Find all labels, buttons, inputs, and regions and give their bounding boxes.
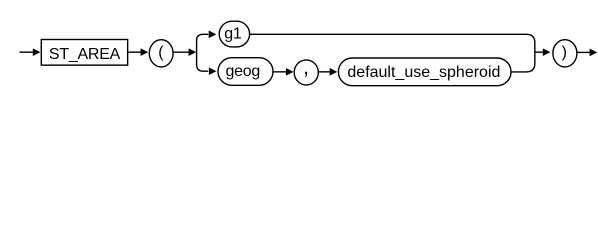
- arrowhead into geog: [209, 67, 217, 75]
- arrowhead into default_use_spheroid: [330, 68, 338, 76]
- arrowhead into ST_AREA: [33, 48, 41, 56]
- wire exit line: [577, 51, 591, 53]
- arrowhead into g1: [209, 31, 217, 39]
- arrowhead at branch point: [189, 48, 197, 56]
- wire geog to comma: [273, 71, 286, 73]
- wire entry line: [20, 51, 34, 53]
- arrowhead into rparen: [543, 48, 551, 56]
- wire top path g1 to merge: [249, 34, 534, 63]
- wire branch to g1 (top curve): [197, 34, 209, 40]
- wire bottom path to merge: [511, 63, 535, 72]
- node geog oval: [218, 58, 273, 86]
- wire lparen to branch: [173, 51, 190, 53]
- svg-text:,: ,: [303, 56, 309, 79]
- svg-text:default_use_spheroid: default_use_spheroid: [347, 64, 500, 81]
- box ST_AREA: [41, 40, 127, 66]
- wire merge to rparen: [535, 51, 543, 53]
- arrowhead into lparen: [141, 48, 149, 56]
- svg-text:(: (: [158, 44, 164, 61]
- wire box to lparen: [128, 51, 141, 53]
- terminal lparen circle: [149, 40, 173, 67]
- terminal comma circle: [294, 60, 318, 85]
- arrowhead into comma: [286, 68, 294, 76]
- wire comma to default_use_spheroid: [319, 71, 331, 73]
- arrowhead exit: [590, 49, 598, 57]
- svg-text:ST_AREA: ST_AREA: [49, 46, 121, 63]
- svg-text:geog: geog: [226, 63, 260, 80]
- terminal rparen circle: [553, 40, 577, 67]
- svg-text:): ): [562, 44, 567, 61]
- node g1 oval: [219, 21, 249, 47]
- branch bar: [196, 40, 198, 65]
- wire branch to geog (bottom curve): [197, 65, 209, 72]
- node default_use_spheroid stadium: [338, 58, 511, 86]
- svg-text:g1: g1: [224, 26, 242, 43]
